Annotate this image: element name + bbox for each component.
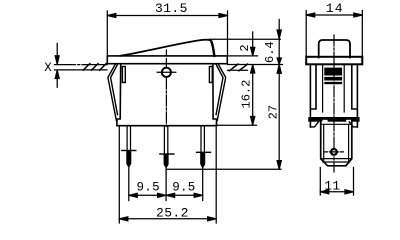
dimension 31.5 — [107, 1, 227, 55]
pivot rivet circle — [162, 68, 171, 77]
svg-text:14: 14 — [326, 1, 344, 16]
panel hatching left — [83, 64, 106, 71]
side view flange — [306, 57, 362, 65]
flange (bezel) front view — [107, 56, 227, 64]
pivot crosshair horizontal dash-dot — [157, 71, 176, 73]
mounting panel right section bottom line — [228, 69, 248, 71]
dimension 25.2 — [119, 127, 216, 224]
terminal hole crosshair — [324, 151, 343, 153]
band notches — [322, 120, 327, 122]
svg-text:9.5: 9.5 — [137, 181, 160, 195]
left foot — [310, 122, 318, 127]
rocker actuator front view — [120, 40, 214, 56]
dimension 11 — [320, 168, 353, 196]
svg-text:2: 2 — [238, 44, 252, 51]
terminal tip extension line — [166, 168, 281, 170]
side view left body wall — [310, 64, 316, 127]
side view body bottom band — [308, 117, 359, 122]
dimension X (panel thickness) — [44, 44, 59, 88]
side view inner channel walls — [323, 64, 345, 112]
dimension 6.4 — [263, 20, 282, 65]
svg-text:25.2: 25.2 — [156, 206, 189, 221]
terminal 3 (right) — [197, 126, 211, 168]
mounting panel right section top line (extension for dims) — [228, 64, 283, 66]
side view rocker — [319, 40, 350, 58]
flange top extension line — [228, 55, 258, 57]
dimension 9.5 right — [166, 168, 203, 201]
dimension 9.5 left — [129, 168, 166, 201]
left clip slot rib — [122, 67, 125, 83]
right foot — [349, 122, 357, 127]
dimension 16.2 — [239, 65, 254, 125]
rocker top extension line — [210, 38, 281, 40]
side view vertical centerline dash-dot — [333, 35, 335, 172]
side view right body wall — [352, 64, 358, 127]
terminal 1 (left) — [122, 126, 136, 167]
svg-text:X: X — [44, 61, 52, 75]
housing top edge — [321, 123, 352, 125]
right clip slot rib — [209, 67, 212, 83]
svg-text:16.2: 16.2 — [239, 80, 253, 109]
switch body front view — [117, 64, 217, 126]
side view lower terminal housing — [321, 122, 352, 166]
housing shoulder lines — [321, 159, 352, 162]
terminal hole — [331, 149, 337, 155]
body bottom extension line — [215, 124, 257, 126]
svg-text:27: 27 — [267, 105, 281, 119]
svg-text:31.5: 31.5 — [155, 1, 188, 16]
dimension 14 — [306, 1, 362, 56]
right snap-in clip wing — [216, 64, 226, 121]
housing inner walls — [324, 124, 349, 161]
left snap-in clip wing — [108, 64, 118, 121]
svg-text:11: 11 — [324, 178, 340, 193]
svg-text:9.5: 9.5 — [172, 181, 195, 195]
terminal 2 (middle) — [160, 126, 174, 168]
panel hatching right — [229, 64, 247, 71]
mounting panel left section bottom line — [55, 69, 108, 71]
svg-text:6.4: 6.4 — [263, 41, 277, 63]
side view latch detail block — [324, 68, 342, 85]
front view vertical centerline dash-dot — [165, 50, 167, 127]
mounting panel left section top line — [55, 64, 108, 66]
dimension 2 — [238, 32, 255, 56]
dimension 27 — [267, 65, 282, 170]
